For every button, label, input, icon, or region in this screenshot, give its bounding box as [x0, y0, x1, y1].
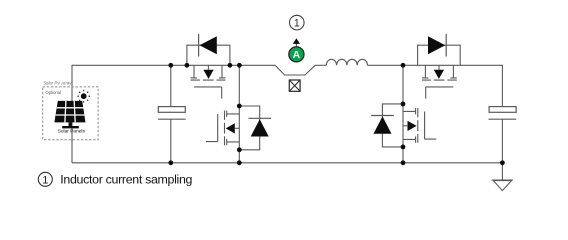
wire: left input drop [71, 65, 73, 163]
diode D4 (antiparallel of Q4) [371, 116, 394, 134]
junction: top rail / C1 [168, 63, 173, 68]
sun [77, 90, 90, 103]
wire: current-sensor dip [275, 65, 315, 75]
sensor block (flux symbol) [289, 80, 300, 91]
svg-text:Solar Panels: Solar Panels [58, 128, 86, 134]
svg-text:Inductor current sampling: Inductor current sampling [60, 173, 192, 187]
junction: Q2 drain [237, 104, 242, 109]
solar panel icon [54, 101, 85, 128]
wire: bottom rail [72, 162, 502, 164]
mosfet Q1 (top left, buck high-side) [191, 65, 226, 98]
wire: dip to inductor [315, 64, 326, 66]
svg-text:Optional: Optional [45, 90, 61, 95]
junction: bottom rail / C1 [168, 160, 173, 165]
ground [492, 163, 513, 191]
wire: diode loop over Q3 [418, 45, 461, 65]
svg-text:Solar PV Array: Solar PV Array [43, 81, 72, 86]
wire: right leg vertical (top rail to bottom rail through Q4) [402, 65, 404, 163]
junction: top rail / D1 loop right [228, 63, 233, 68]
wire: diode branch of Q4 [382, 104, 403, 147]
mosfet Q4 (bottom right, boost low-side) [403, 108, 436, 143]
wire: left capacitor lower lead [170, 119, 172, 163]
junction: Q4 drain [401, 102, 406, 107]
junction: bottom rail / right leg [401, 160, 406, 165]
junction: bottom rail / C2 and ground [500, 160, 505, 165]
svg-text:A: A [293, 50, 301, 61]
legend text: Inductor current sampling [60, 173, 192, 187]
junction: Q4 source [401, 145, 406, 150]
current probe arrow [293, 38, 300, 46]
label: Solar Panels [58, 128, 86, 134]
mosfet Q2 (bottom left, buck low-side) [206, 111, 239, 146]
junction: inductor / right leg [401, 63, 406, 68]
wire: diode branch of Q2 [239, 106, 259, 150]
wire: left leg vertical (top rail to bottom rail through Q2) [238, 65, 240, 163]
inductor L1 [326, 59, 367, 65]
mosfet Q3 (top right, boost high-side) [422, 65, 457, 98]
wire: top rail left (input side) [72, 64, 275, 66]
wire: right capacitor lower lead [501, 119, 503, 163]
junction: bottom rail / left leg [237, 160, 242, 165]
wire: inductor to output corner [368, 64, 503, 66]
diode D2 (antiparallel of Q2) [248, 118, 271, 136]
diode D1 (antiparallel of Q1) [199, 34, 217, 57]
junction: Q2 source [237, 147, 242, 152]
svg-text:1: 1 [294, 17, 300, 29]
junction: top rail / left leg [237, 63, 242, 68]
capacitor C1 (input) [158, 107, 186, 120]
capacitor C2 (output) [489, 107, 517, 120]
junction: top rail / D1 loop left [185, 63, 190, 68]
ammeter probe A [289, 47, 304, 62]
diode D3 (antiparallel of Q3) [428, 34, 446, 57]
legend callout 1 [38, 172, 52, 186]
svg-text:1: 1 [42, 174, 48, 186]
solar PV array dashed box [43, 81, 98, 140]
wire: left capacitor upper lead [170, 65, 172, 106]
wire: right output drop to capacitor [501, 65, 503, 107]
wire: diode loop over Q1 [187, 45, 230, 65]
callout circle 1 (top) [290, 15, 305, 30]
